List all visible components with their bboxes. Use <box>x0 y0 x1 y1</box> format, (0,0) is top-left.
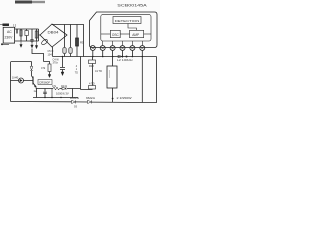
pin 4 <box>120 46 125 51</box>
node dot pin6 bus <box>142 56 144 58</box>
wire bridge bottom to bus <box>52 47 54 57</box>
svg-text:AC: AC <box>7 30 12 34</box>
relay box inner mark <box>109 70 111 78</box>
svg-text:230V: 230V <box>5 36 14 40</box>
electrolytic cap C2a <box>63 25 66 57</box>
small cap pair at box edge <box>16 29 17 34</box>
top wire of transistor block <box>11 61 32 63</box>
wire into bridge <box>39 29 41 41</box>
svg-text:1000/6.3V: 1000/6.3V <box>56 92 69 96</box>
diode D6 <box>88 100 92 103</box>
pin 6 <box>140 46 145 51</box>
svg-text:1N40: 1N40 <box>12 76 19 80</box>
svg-text:R5: R5 <box>80 41 84 45</box>
node dots on bus <box>92 56 133 58</box>
DETECTION block <box>113 17 141 24</box>
wire AC top <box>15 28 39 30</box>
wire osc to amp <box>120 33 129 35</box>
electrolytic cap C3 <box>69 25 72 57</box>
svg-text:L2 100UH: L2 100UH <box>117 58 133 62</box>
step wire from input area down <box>32 49 44 62</box>
capacitor C4 to ground <box>53 56 66 76</box>
resistor R7 zigzag <box>53 87 60 90</box>
diode D1 vertical <box>30 62 33 76</box>
wire pin6 down right rail <box>141 50 143 102</box>
pin 1 <box>90 46 95 51</box>
pin 2 <box>100 46 105 51</box>
pin stubs above <box>103 41 143 46</box>
middle rail resistor chain <box>92 57 94 86</box>
svg-text:93: 93 <box>74 105 77 109</box>
tiny marks above wire <box>14 24 16 28</box>
svg-text:370x: 370x <box>53 62 59 65</box>
resistor R5 vertical thick <box>76 25 84 57</box>
dark dash above AC box <box>3 24 10 27</box>
junction dots lower wire <box>44 97 61 98</box>
stub left edge <box>0 24 3 26</box>
bottom-left block left rail <box>10 62 12 102</box>
inductor L2 on bus <box>117 55 133 62</box>
svg-text:104: 104 <box>48 54 53 57</box>
middle network left rail <box>81 57 93 90</box>
op-amp U1 outer IC box <box>90 12 158 48</box>
svg-text:4 TD: 4 TD <box>89 82 95 86</box>
left rail label <box>75 65 78 74</box>
svg-text:DM2A: DM2A <box>70 96 79 100</box>
resistor R12 box <box>89 82 96 90</box>
main bus under IC <box>53 56 157 58</box>
wire inner left to osc <box>101 33 111 35</box>
wire to opto diode <box>11 80 31 82</box>
svg-text:DB04: DB04 <box>48 31 59 35</box>
node dot D2 <box>112 98 114 100</box>
svg-text:OSC: OSC <box>112 33 120 37</box>
svg-text:AMP: AMP <box>132 33 139 37</box>
svg-text:1N41: 1N41 <box>61 85 68 88</box>
capacitor C1 box <box>25 29 28 41</box>
pin drop wires <box>93 50 133 56</box>
lower mid wire <box>33 89 78 98</box>
AC source box <box>3 27 14 43</box>
resistor R10 box <box>89 60 96 68</box>
svg-text:SCB00145A: SCB00145A <box>117 2 147 7</box>
bottom rail <box>11 102 143 103</box>
bridge rectifier DB04 <box>40 24 67 47</box>
wire amp to inner box right <box>144 33 151 35</box>
svg-text:41 TD: 41 TD <box>95 69 102 73</box>
opto LED circle <box>19 78 24 83</box>
svg-text:47k: 47k <box>41 66 46 70</box>
right bottom step <box>142 57 156 103</box>
svg-text:R10: R10 <box>89 64 94 68</box>
transistor label CR560F <box>38 80 52 85</box>
emitter wire row <box>36 88 81 90</box>
title bar smudge <box>15 1 45 4</box>
stub AC bottom with terminal dot <box>2 43 9 45</box>
svg-text:6M2A: 6M2A <box>86 96 95 100</box>
pin 3 <box>110 46 115 51</box>
fuse F1 <box>20 29 22 41</box>
transistor Q1 <box>30 75 36 89</box>
svg-text:47k: 47k <box>52 85 57 88</box>
resistor R6 vertical <box>41 64 51 78</box>
inner block box <box>101 15 151 41</box>
labels above row <box>52 85 68 88</box>
svg-text:TD: TD <box>75 71 78 74</box>
OSC block <box>110 30 120 37</box>
pin 5 <box>130 46 135 51</box>
AMP block <box>130 30 144 37</box>
ground arrows under input parts <box>20 41 38 49</box>
svg-text:DETECTION: DETECTION <box>115 19 140 23</box>
cap C5 label <box>48 50 54 57</box>
capacitor C2 <box>30 29 33 43</box>
svg-text:C5 Φ: C5 Φ <box>48 50 54 53</box>
cap C6 <box>43 89 46 98</box>
diode D3 <box>62 87 66 90</box>
diode labels <box>70 96 95 109</box>
wire box to rail <box>112 88 114 103</box>
relay box K1 <box>107 66 117 88</box>
wire d5-d6 <box>76 101 88 103</box>
diode D5 <box>72 100 76 103</box>
ellipse mark near bridge <box>41 38 49 45</box>
stub C7 <box>51 89 53 98</box>
vertical to relay box <box>112 57 114 67</box>
wire to resistor R6 <box>44 62 50 65</box>
wire bridge top over and down to bus <box>52 25 84 57</box>
wire AC bottom <box>15 40 39 42</box>
wire detection to amp <box>128 24 137 31</box>
svg-text:2 1N50W: 2 1N50W <box>117 96 133 100</box>
svg-text:CR560F: CR560F <box>39 81 50 85</box>
varistor RV1 <box>35 29 38 41</box>
